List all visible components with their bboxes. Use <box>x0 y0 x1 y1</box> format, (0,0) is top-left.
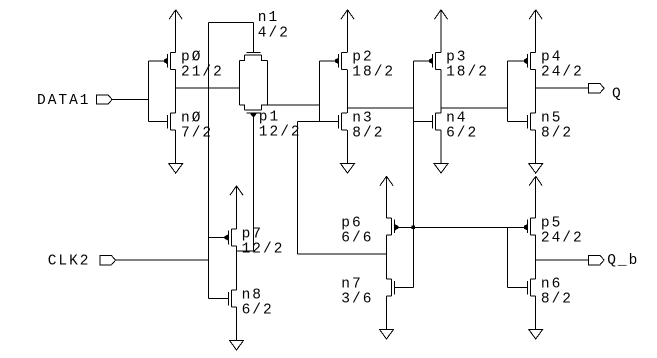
svg-text:pØ: pØ <box>181 50 202 66</box>
svg-text:n5: n5 <box>541 110 562 126</box>
svg-text:12/2: 12/2 <box>259 125 302 141</box>
svg-text:CLK2: CLK2 <box>48 254 91 270</box>
svg-text:7/2: 7/2 <box>181 125 213 141</box>
svg-text:24/2: 24/2 <box>541 230 584 246</box>
svg-text:Q_b: Q_b <box>607 253 639 269</box>
svg-text:p7: p7 <box>242 226 263 242</box>
svg-text:3/6: 3/6 <box>341 291 373 307</box>
svg-text:n8: n8 <box>242 287 263 303</box>
svg-text:18/2: 18/2 <box>352 65 395 81</box>
svg-text:18/2: 18/2 <box>446 65 489 81</box>
svg-text:DATA1: DATA1 <box>37 93 91 109</box>
svg-text:n7: n7 <box>341 276 362 292</box>
svg-text:p5: p5 <box>541 215 562 231</box>
svg-text:nØ: nØ <box>181 110 202 126</box>
svg-text:p3: p3 <box>446 50 467 66</box>
svg-text:n6: n6 <box>541 276 562 292</box>
svg-text:6/6: 6/6 <box>341 230 373 246</box>
svg-text:p4: p4 <box>541 50 562 66</box>
svg-text:p1: p1 <box>259 110 280 126</box>
svg-text:12/2: 12/2 <box>242 241 285 257</box>
svg-text:n3: n3 <box>352 110 373 126</box>
svg-text:21/2: 21/2 <box>181 65 224 81</box>
svg-text:6/2: 6/2 <box>446 125 478 141</box>
svg-text:n4: n4 <box>446 110 467 126</box>
svg-text:4/2: 4/2 <box>258 26 290 42</box>
svg-text:n1: n1 <box>258 10 279 26</box>
svg-text:24/2: 24/2 <box>541 65 584 81</box>
svg-text:p2: p2 <box>352 50 373 66</box>
svg-text:6/2: 6/2 <box>242 302 274 318</box>
svg-text:Q: Q <box>612 87 623 103</box>
svg-text:p6: p6 <box>341 215 362 231</box>
svg-text:8/2: 8/2 <box>352 125 384 141</box>
svg-text:8/2: 8/2 <box>541 291 573 307</box>
svg-text:8/2: 8/2 <box>541 125 573 141</box>
